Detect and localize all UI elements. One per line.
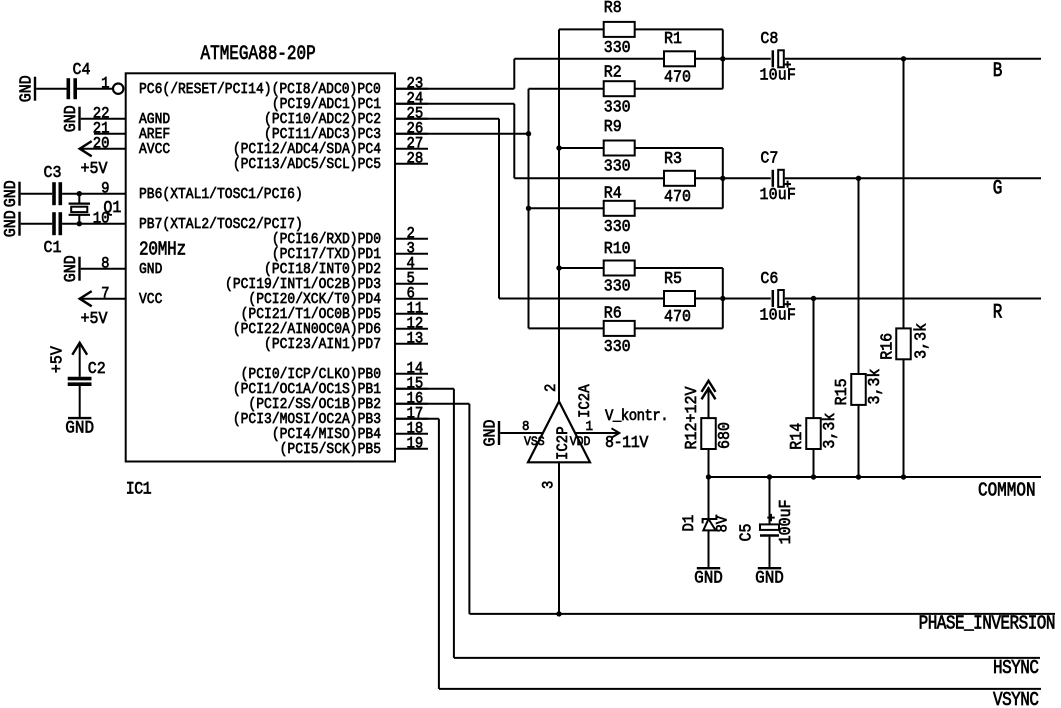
svg-text:PHASE_INVERSION: PHASE_INVERSION: [919, 613, 1055, 635]
svg-text:GND: GND: [139, 262, 162, 278]
svg-text:(PCI17/TXD)PD1: (PCI17/TXD)PD1: [272, 246, 381, 263]
svg-text:IC2P: IC2P: [555, 426, 572, 460]
svg-text:(PCI4/MISO)PB4: (PCI4/MISO)PB4: [272, 426, 381, 443]
svg-text:330: 330: [604, 217, 631, 236]
svg-text:R5: R5: [664, 269, 682, 288]
svg-text:(PCI2/SS/OC1B)PB2: (PCI2/SS/OC1B)PB2: [248, 396, 381, 413]
svg-text:R12+12V: R12+12V: [682, 386, 701, 449]
svg-text:3: 3: [541, 481, 558, 489]
svg-text:GND: GND: [1, 210, 20, 237]
svg-text:GND: GND: [61, 105, 80, 132]
svg-text:GND: GND: [694, 569, 723, 589]
svg-text:(PCI3/MOSI/OC2A)PB3: (PCI3/MOSI/OC2A)PB3: [233, 411, 381, 428]
svg-text:R: R: [993, 302, 1003, 324]
svg-text:+5V: +5V: [81, 159, 108, 178]
svg-text:+5V: +5V: [48, 346, 67, 373]
svg-text:2: 2: [543, 384, 560, 392]
svg-text:VCC: VCC: [139, 292, 162, 308]
svg-text:V_kontr.: V_kontr.: [605, 409, 668, 426]
svg-text:7: 7: [101, 286, 109, 303]
svg-text:+5V: +5V: [81, 309, 108, 328]
svg-text:20MHz: 20MHz: [139, 239, 186, 261]
svg-text:R14: R14: [787, 423, 806, 450]
svg-text:R4: R4: [604, 184, 622, 203]
svg-text:(PCI10/ADC2)PC2: (PCI10/ADC2)PC2: [264, 111, 381, 128]
svg-text:COMMON: COMMON: [978, 480, 1036, 502]
svg-text:R15: R15: [832, 378, 851, 405]
svg-text:(PCI20/XCK/T0)PD4: (PCI20/XCK/T0)PD4: [248, 291, 381, 308]
svg-text:8: 8: [522, 418, 530, 434]
svg-text:ATMEGA88-20P: ATMEGA88-20P: [201, 44, 316, 66]
svg-text:VSYNC: VSYNC: [993, 690, 1038, 708]
svg-text:8: 8: [101, 256, 109, 273]
svg-text:9: 9: [101, 181, 109, 198]
svg-text:(PCI12/ADC4/SDA)PC4: (PCI12/ADC4/SDA)PC4: [233, 141, 381, 158]
svg-text:(PCI0/ICP/CLKO)PB0: (PCI0/ICP/CLKO)PB0: [241, 366, 381, 383]
svg-text:13: 13: [407, 331, 424, 348]
svg-text:(PCI9/ADC1)PC1: (PCI9/ADC1)PC1: [272, 96, 381, 113]
svg-text:AVCC: AVCC: [139, 142, 170, 158]
svg-text:C6: C6: [760, 269, 778, 288]
svg-text:GND: GND: [1, 180, 20, 207]
svg-text:680: 680: [715, 422, 734, 449]
svg-text:R1: R1: [664, 29, 682, 48]
svg-text:1: 1: [586, 418, 594, 434]
svg-text:10uF: 10uF: [760, 306, 797, 325]
svg-text:(PCI11/ADC3)PC3: (PCI11/ADC3)PC3: [264, 126, 381, 143]
svg-text:(PCI13/ADC5/SCL)PC5: (PCI13/ADC5/SCL)PC5: [233, 156, 381, 173]
svg-text:PB6(XTAL1/TOSC1/PCI6): PB6(XTAL1/TOSC1/PCI6): [139, 186, 303, 203]
svg-text:330: 330: [604, 38, 631, 57]
svg-text:PB7(XTAL2/TOSC2/PCI7): PB7(XTAL2/TOSC2/PCI7): [139, 216, 303, 233]
svg-text:GND: GND: [481, 420, 500, 447]
svg-text:330: 330: [604, 337, 631, 356]
svg-text:HSYNC: HSYNC: [993, 658, 1038, 680]
svg-text:C1: C1: [44, 238, 62, 257]
svg-text:C3: C3: [44, 163, 62, 182]
svg-text:10uF: 10uF: [760, 185, 797, 204]
svg-text:G: G: [993, 178, 1002, 200]
svg-text:GND: GND: [65, 419, 94, 439]
svg-text:3,3k: 3,3k: [820, 413, 839, 449]
svg-text:10uF: 10uF: [760, 66, 797, 85]
svg-text:GND: GND: [755, 569, 784, 589]
svg-text:D1: D1: [682, 515, 699, 532]
svg-text:R2: R2: [604, 63, 622, 82]
svg-text:470: 470: [664, 307, 691, 326]
svg-text:19: 19: [407, 436, 424, 453]
svg-text:1: 1: [101, 76, 109, 93]
svg-text:(PCI5/SCK)PB5: (PCI5/SCK)PB5: [280, 441, 381, 458]
svg-text:330: 330: [604, 157, 631, 176]
svg-text:3,3k: 3,3k: [865, 369, 884, 405]
svg-text:470: 470: [664, 68, 691, 87]
svg-text:3,3k: 3,3k: [912, 323, 931, 359]
svg-text:330: 330: [604, 277, 631, 296]
svg-text:Q1: Q1: [103, 198, 121, 217]
svg-text:20: 20: [93, 136, 110, 153]
svg-text:C8: C8: [760, 29, 778, 48]
svg-text:330: 330: [604, 98, 631, 117]
svg-text:(PCI22/AIN0OC0A)PD6: (PCI22/AIN0OC0A)PD6: [233, 321, 381, 338]
svg-text:C5: C5: [737, 524, 756, 542]
svg-text:C7: C7: [760, 149, 778, 168]
svg-text:R6: R6: [604, 304, 622, 323]
svg-text:C2: C2: [88, 359, 106, 378]
svg-text:8V: 8V: [715, 516, 732, 533]
svg-text:R10: R10: [604, 239, 631, 258]
svg-text:PC6(/RESET/PCI14)(PCI8/ADC0)PC: PC6(/RESET/PCI14)(PCI8/ADC0)PC0: [139, 81, 381, 98]
svg-text:R3: R3: [664, 149, 682, 168]
svg-text:100uF: 100uF: [776, 499, 795, 544]
svg-text:(PCI23/AIN1)PD7: (PCI23/AIN1)PD7: [264, 336, 381, 353]
svg-text:AGND: AGND: [139, 112, 170, 128]
svg-text:AREF: AREF: [139, 127, 170, 143]
svg-text:R16: R16: [878, 333, 897, 360]
svg-text:(PCI18/INT0)PD2: (PCI18/INT0)PD2: [264, 261, 381, 278]
svg-text:IC2A: IC2A: [577, 384, 594, 418]
svg-text:470: 470: [664, 187, 691, 206]
svg-text:(PCI21/T1/OC0B)PD5: (PCI21/T1/OC0B)PD5: [241, 306, 381, 323]
svg-text:GND: GND: [61, 255, 80, 282]
svg-text:(PCI19/INT1/OC2B)PD3: (PCI19/INT1/OC2B)PD3: [225, 276, 381, 293]
svg-text:C4: C4: [73, 60, 91, 79]
svg-text:8-11V: 8-11V: [605, 433, 649, 452]
svg-text:IC1: IC1: [126, 478, 152, 499]
svg-text:(PCI1/OC1A/OC1S)PB1: (PCI1/OC1A/OC1S)PB1: [233, 381, 381, 398]
svg-text:28: 28: [407, 151, 424, 168]
svg-text:B: B: [993, 60, 1003, 82]
svg-text:GND: GND: [17, 75, 36, 102]
svg-text:R8: R8: [604, 0, 622, 17]
svg-text:(PCI16/RXD)PD0: (PCI16/RXD)PD0: [272, 231, 381, 248]
svg-text:R9: R9: [604, 117, 622, 136]
